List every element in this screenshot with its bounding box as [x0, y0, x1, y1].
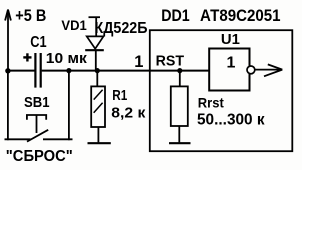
+5V supply arrow — [5, 10, 11, 72]
C1 polarity plus — [23, 53, 31, 61]
node junction dot SB1 right — [66, 68, 71, 73]
svg-text:50...300 к: 50...300 к — [197, 111, 265, 128]
IC DD1 box — [150, 30, 292, 151]
svg-text:Rrst: Rrst — [198, 95, 224, 111]
svg-text:R1: R1 — [112, 88, 127, 104]
svg-text:1: 1 — [134, 53, 143, 71]
svg-text:VD1: VD1 — [61, 17, 87, 33]
node junction dot Rrst — [177, 68, 182, 73]
svg-text:АТ89С2051: АТ89С2051 — [200, 6, 281, 25]
ground under R1 — [88, 142, 111, 144]
svg-text:1: 1 — [227, 55, 236, 72]
resistor R1 — [91, 71, 105, 143]
push button SB1 — [5, 71, 73, 142]
ground under Rrst — [169, 142, 191, 144]
node junction dot left — [5, 68, 10, 73]
output inversion circle — [247, 66, 255, 74]
capacitor C1 — [35, 53, 40, 88]
op-amp U1 buffer box — [209, 49, 249, 91]
resistor Rrst (internal) — [171, 71, 188, 143]
svg-text:RST: RST — [156, 54, 185, 70]
svg-text:SB1: SB1 — [24, 94, 50, 111]
svg-text:"СБРОС": "СБРОС" — [6, 148, 73, 165]
diode VD1 — [85, 17, 104, 70]
svg-text:КД522Б: КД522Б — [95, 20, 148, 37]
node junction dot VD1/R1 — [95, 68, 100, 73]
svg-text:DD1: DD1 — [161, 6, 190, 25]
svg-text:8,2 к: 8,2 к — [111, 106, 146, 122]
svg-text:C1: C1 — [30, 34, 47, 51]
wire output with arrow — [255, 64, 282, 76]
svg-text:10 мк: 10 мк — [46, 50, 87, 67]
wire main horizontal RST net — [7, 70, 35, 72]
svg-text:U1: U1 — [221, 31, 240, 48]
svg-text:+5 В: +5 В — [15, 7, 46, 25]
